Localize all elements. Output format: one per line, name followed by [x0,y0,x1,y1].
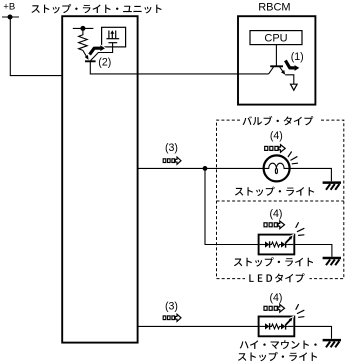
label バルブ・タイプ [243,116,314,125]
svg-text:CPU: CPU [264,33,287,45]
wire Q2 base to RBCM [90,61,268,74]
ground (high mount stop light) [323,340,341,347]
label ストップ・ライト (LED) [234,257,313,266]
wire unit output to stop lights [138,167,264,169]
dashed box bulb type / LED type [217,120,344,279]
svg-text:RBCM: RBCM [258,2,290,14]
wire unit output to high mount stop light [138,325,259,327]
wire bulb to ground [290,168,332,181]
driver box U1 (output driver in unit) [102,27,126,47]
wire high mount to ground [294,326,331,338]
svg-text:(4): (4) [270,292,283,304]
wire +B to stop light unit [10,17,62,76]
light rays (bulb) [288,152,297,164]
svg-text:(4): (4) [270,208,283,220]
light rays (high mount stop light) [296,305,304,318]
high mount stop light [259,317,295,337]
connector (3) lower [163,314,181,321]
connector (3) upper [163,157,181,164]
transistor Q1 (RBCM) [269,45,294,85]
signal flow arrow (2) [90,45,105,54]
signal flow arrow (1) [285,60,299,71]
label ストップ・ライト (high mount) [238,352,317,361]
ground (bulb stop light) [323,183,341,190]
connector (4) high mount [264,305,285,313]
label ストップ・ライト (bulb) [235,187,314,196]
svg-text:+B: +B [3,1,15,12]
connector (4) bulb [265,145,286,153]
RBCM box [238,16,315,104]
node internal supply [73,26,94,31]
transistor Q2 (PNP, stop light unit) [83,50,96,61]
stop light unit box [62,16,137,342]
wire junction to LED stop light [205,168,259,244]
CPU box [250,31,302,45]
svg-text:(1): (1) [291,51,304,63]
LED stop light [259,235,295,255]
svg-text:(4): (4) [270,130,283,142]
connector (4) LED stop light [264,221,285,229]
stop light bulb [264,155,290,181]
ground (LED stop light) [323,258,341,265]
light rays (LED stop light) [296,223,304,236]
svg-text:(3): (3) [165,142,178,154]
node +B terminal [2,15,19,20]
label ストップ・ライト・ユニット [31,4,161,13]
open arrow to body ground [291,84,298,90]
svg-text:(2): (2) [98,57,111,69]
wire LED stop light to ground [294,245,332,257]
svg-text:(3): (3) [165,301,178,313]
transistor Q2 collector wire [91,43,113,61]
label LEDタイプ [249,273,304,282]
label ハイ・マウント・ [240,340,317,349]
resistor (pull-up in unit) [79,28,88,50]
junction node [203,166,208,171]
